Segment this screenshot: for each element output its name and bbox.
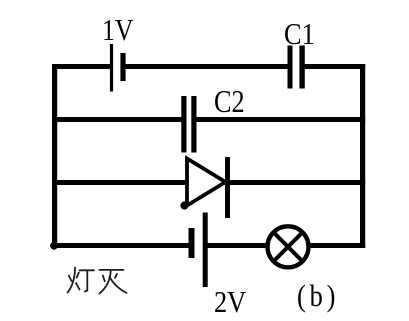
capacitor C2 right plate	[191, 96, 196, 153]
label 2V (battery value)	[214, 284, 246, 320]
wire bottom row left segment	[52, 243, 192, 248]
wire bottom row middle segment	[205, 243, 266, 248]
wire second row right segment	[194, 117, 365, 122]
lamp L1 circle	[268, 226, 309, 267]
junction node bottom-left	[50, 242, 58, 250]
capacitor C2 left plate	[181, 96, 186, 153]
capacitor C1 left plate	[288, 46, 293, 89]
lamp L1 cross stroke 1	[274, 232, 303, 261]
battery 1V long plate	[110, 44, 113, 92]
wire bottom row right segment	[311, 243, 366, 248]
battery 1V short plate	[120, 53, 125, 81]
label (b) figure tag	[297, 278, 339, 314]
label 灯灭 (lamp off) drawn strokes	[68, 268, 127, 294]
label C1 (capacitor designator)	[284, 16, 315, 52]
diode D1 triangle	[187, 159, 226, 206]
battery 2V long plate	[203, 213, 208, 288]
wire third row left segment	[52, 180, 187, 185]
wire third row right segment	[228, 180, 366, 185]
wire top row right segment	[302, 64, 365, 69]
wire right vertical bus	[360, 64, 365, 248]
wire second row left segment	[52, 117, 184, 122]
capacitor C1 right plate	[299, 46, 304, 89]
diode D1 anode vertex blob	[180, 201, 188, 209]
diode D1 cathode bar	[225, 157, 230, 218]
lamp L1 cross stroke 2	[274, 232, 303, 261]
label 1V (battery value)	[102, 12, 133, 48]
battery 2V short plate	[189, 228, 195, 258]
wire top row middle segment	[123, 64, 290, 69]
label C2 (capacitor designator)	[214, 83, 245, 120]
wire top row left segment	[52, 64, 112, 69]
wire left vertical bus	[52, 64, 57, 248]
